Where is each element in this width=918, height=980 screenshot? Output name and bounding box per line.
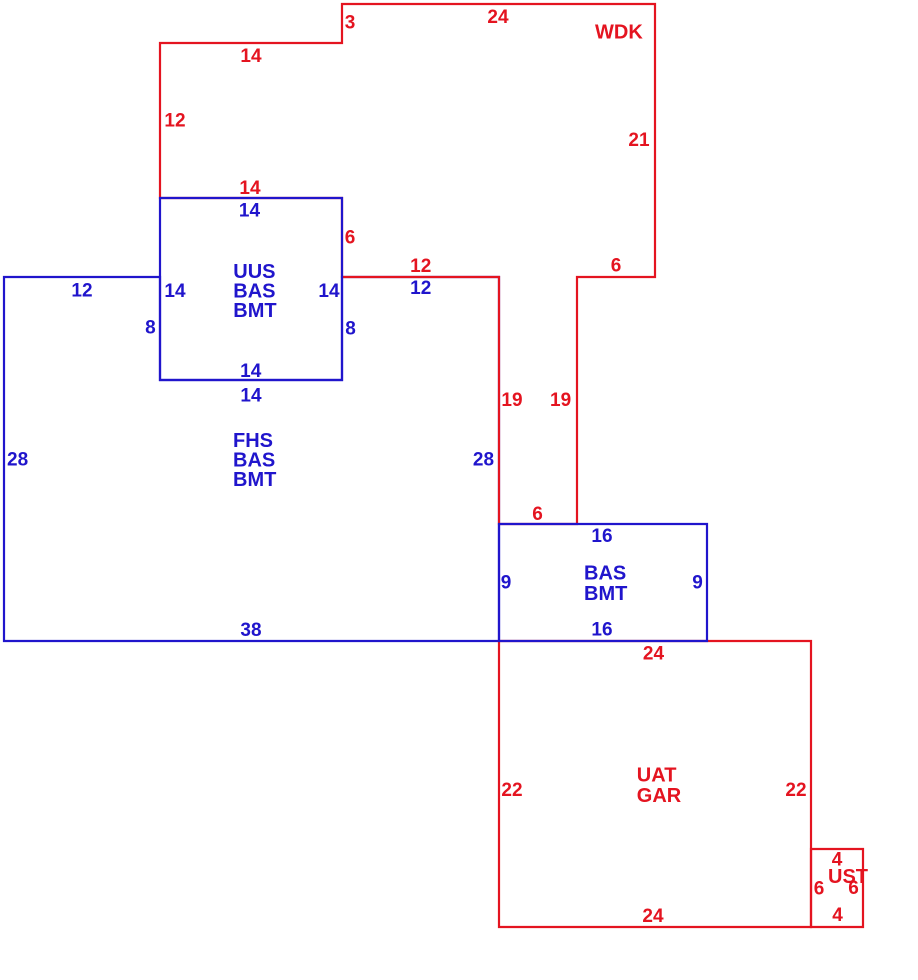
svg-text:6: 6 [345, 228, 356, 249]
svg-text:22: 22 [501, 780, 522, 801]
svg-text:24: 24 [643, 644, 665, 665]
svg-text:14: 14 [318, 281, 340, 302]
svg-text:BMT: BMT [584, 583, 627, 605]
WDK area polygon (red) [160, 4, 655, 524]
svg-text:GAR: GAR [637, 785, 682, 807]
svg-text:9: 9 [692, 573, 703, 594]
svg-text:9: 9 [501, 573, 512, 594]
svg-text:6: 6 [532, 504, 543, 525]
svg-text:19: 19 [501, 390, 522, 411]
svg-text:14: 14 [240, 46, 262, 67]
svg-text:UAT: UAT [637, 765, 677, 787]
svg-text:14: 14 [240, 361, 262, 382]
svg-text:BAS: BAS [584, 563, 626, 585]
svg-text:6: 6 [611, 256, 622, 277]
svg-text:14: 14 [240, 385, 262, 406]
svg-text:8: 8 [345, 319, 356, 340]
svg-text:3: 3 [345, 13, 356, 34]
svg-text:14: 14 [239, 178, 261, 199]
svg-text:28: 28 [473, 449, 494, 470]
svg-text:6: 6 [848, 878, 859, 899]
svg-text:FHS: FHS [233, 430, 273, 452]
svg-text:14: 14 [164, 281, 186, 302]
svg-text:14: 14 [239, 201, 261, 222]
svg-text:12: 12 [71, 280, 92, 301]
FHS area polygon (blue) [4, 277, 499, 641]
svg-text:12: 12 [410, 256, 431, 277]
svg-text:38: 38 [240, 620, 261, 641]
svg-text:WDK: WDK [595, 21, 643, 43]
svg-text:BMT: BMT [233, 300, 276, 322]
UUS area polygon (blue) [160, 198, 342, 380]
svg-text:28: 28 [7, 449, 28, 470]
UAT GAR area polygon (red) [499, 641, 811, 927]
svg-text:12: 12 [164, 111, 185, 132]
svg-text:BMT: BMT [233, 469, 276, 491]
svg-text:21: 21 [628, 130, 650, 151]
svg-text:22: 22 [785, 780, 806, 801]
svg-text:16: 16 [591, 526, 612, 547]
BAS area polygon (blue) [499, 524, 707, 641]
svg-text:4: 4 [832, 905, 843, 926]
svg-text:24: 24 [642, 906, 664, 927]
svg-text:8: 8 [145, 318, 156, 339]
UST area polygon (red) [811, 849, 863, 927]
svg-text:12: 12 [410, 278, 431, 299]
svg-text:19: 19 [550, 390, 571, 411]
svg-text:16: 16 [591, 620, 612, 641]
svg-text:6: 6 [814, 879, 825, 900]
svg-text:24: 24 [487, 7, 509, 28]
